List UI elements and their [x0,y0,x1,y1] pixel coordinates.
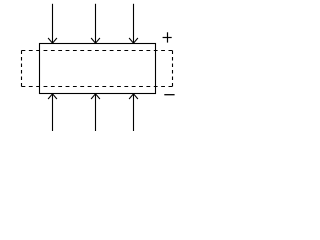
bottom arrow 2 [91,94,100,131]
top arrow 2 [91,4,100,43]
top arrow 3 [129,4,138,43]
top arrow 1 [48,4,57,43]
bottom arrow 3 [129,94,138,131]
solid slab rectangle [40,44,156,94]
plus sign (top right) [163,32,172,42]
bottom arrow 1 [48,94,57,131]
minus sign (bottom right) [164,94,174,96]
dashed boundary rectangle [22,51,173,87]
